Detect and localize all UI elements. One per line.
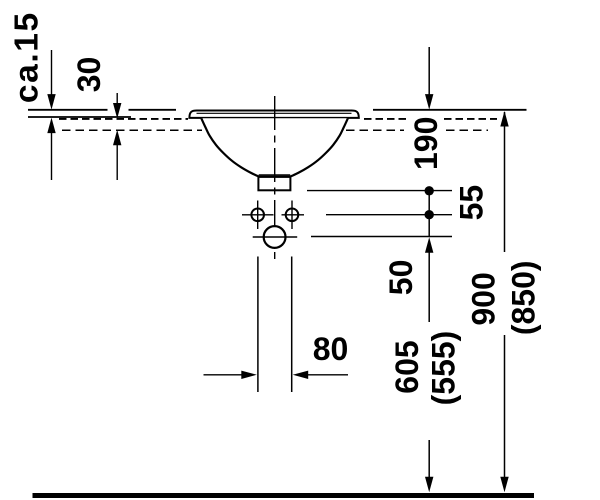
hidden cutout dashed line right xyxy=(364,118,497,120)
basin rim xyxy=(189,111,358,118)
counter underside dashed line right xyxy=(346,129,488,131)
svg-text:30: 30 xyxy=(71,57,107,93)
drain pipe lines xyxy=(258,257,292,393)
drain lip line xyxy=(259,174,291,176)
counter surface line left xyxy=(28,116,131,118)
svg-text:190: 190 xyxy=(408,117,444,170)
dimension 900 (850) xyxy=(504,112,506,478)
svg-text:55: 55 xyxy=(454,185,490,221)
dimension 55 with dots xyxy=(428,191,430,237)
crosshair tap hole xyxy=(253,236,298,238)
svg-text:605: 605 xyxy=(389,340,425,393)
reference line tap hole xyxy=(311,236,452,238)
dimension 190 xyxy=(428,47,430,96)
basin rim inner line xyxy=(197,112,352,114)
centerline xyxy=(274,96,276,259)
tap hole xyxy=(264,226,286,248)
svg-text:900: 900 xyxy=(466,272,502,325)
right fixing hole xyxy=(286,209,299,222)
dimension 50 xyxy=(428,251,430,322)
counter underside dashed line left xyxy=(62,129,202,131)
hidden cutout dashed line left xyxy=(59,118,188,120)
left fixing hole xyxy=(251,209,264,222)
svg-text:50: 50 xyxy=(383,260,419,296)
reference line holes lower xyxy=(326,214,452,216)
crosshair left hole xyxy=(242,201,274,230)
counter top edge line left xyxy=(28,109,176,111)
drain box xyxy=(258,177,290,190)
basin bowl xyxy=(201,118,348,176)
reference line holes upper xyxy=(307,190,452,192)
dimension 605 (555) xyxy=(428,440,430,478)
svg-text:ca.15: ca.15 xyxy=(9,11,46,103)
svg-text:(555): (555) xyxy=(426,331,462,406)
dimension 80 xyxy=(204,374,349,376)
counter top edge line right xyxy=(373,109,527,111)
svg-text:(850): (850) xyxy=(505,260,541,335)
svg-text:80: 80 xyxy=(313,331,349,367)
dimension 30 xyxy=(116,93,118,180)
floor line xyxy=(33,493,535,498)
dimension ca.15 xyxy=(51,50,53,180)
crosshair right hole xyxy=(282,201,305,230)
